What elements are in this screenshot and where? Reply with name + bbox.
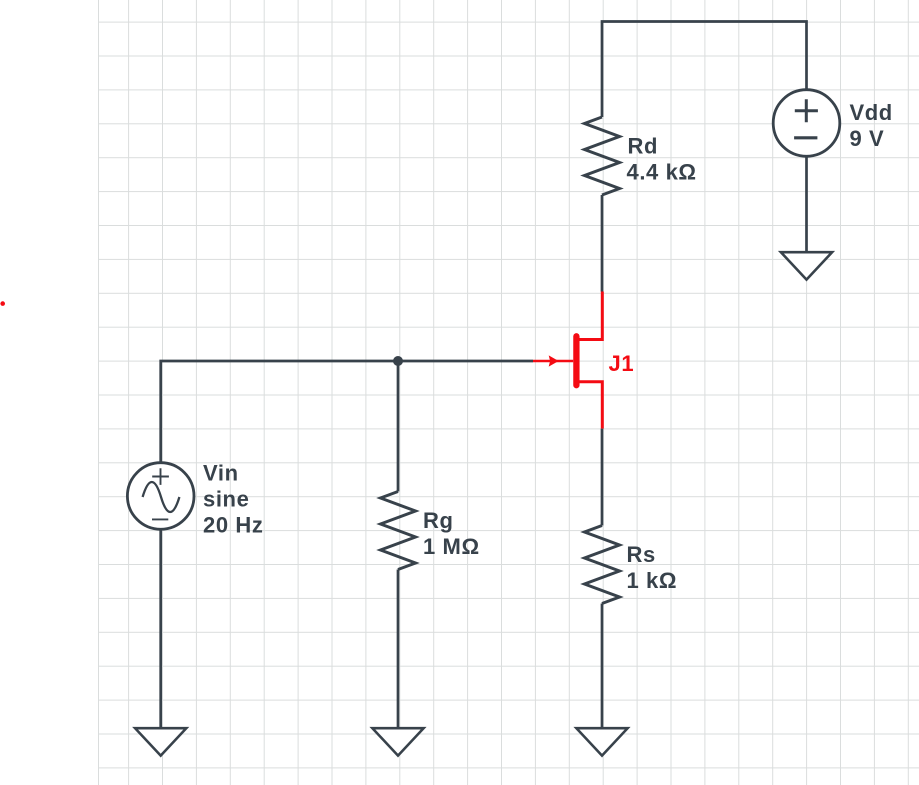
source Vdd plus [795,99,818,122]
wire J1 source to Rs [601,429,604,526]
transistor J1 channel bar [573,336,579,385]
node junction dot [393,356,403,366]
resistor Rs [585,526,620,604]
svg-text:1 kΩ: 1 kΩ [627,568,678,593]
transistor J1 gate lead (red) [533,360,573,363]
svg-text:Rg: Rg [423,508,454,533]
svg-text:4.4 kΩ: 4.4 kΩ [627,160,697,185]
svg-text:Rs: Rs [627,542,656,567]
ground below Vin [135,728,186,755]
source Vin plus [152,468,169,485]
wire Rs to ground [601,604,604,729]
source Vin sine wave [143,482,180,512]
red marker dot left edge [0,301,5,306]
wire Rg to ground [397,570,400,729]
svg-text:J1: J1 [609,351,635,376]
resistor Rd [585,117,620,195]
source Vin circle [127,463,194,530]
source Vdd circle [773,90,840,157]
source Vin minus [152,518,168,520]
svg-text:sine: sine [203,487,249,512]
resistor Rg [381,492,416,570]
source Vdd minus [794,136,817,139]
wire node to Rg [397,361,400,492]
svg-text:Rd: Rd [628,134,659,159]
svg-text:Vdd: Vdd [850,100,893,125]
ground below Vdd [781,252,832,279]
transistor J1 source lead (red) [579,382,602,429]
transistor J1 gate arrow [549,355,559,366]
svg-text:9 V: 9 V [850,126,885,151]
wire Vdd top rail [602,22,807,118]
wire gate rail (Vin / Rg / J1 gate) [161,361,533,462]
svg-text:Vin: Vin [203,461,239,486]
svg-text:1 MΩ: 1 MΩ [423,534,480,559]
ground below Rs [576,728,627,755]
ground below Rg [372,728,423,755]
transistor J1 drain lead (red) [579,292,602,340]
wire Rd to J1 drain [601,195,604,292]
wire Vin to ground [159,529,162,728]
svg-text:20 Hz: 20 Hz [203,513,263,538]
wire Vdd to ground [805,156,808,252]
